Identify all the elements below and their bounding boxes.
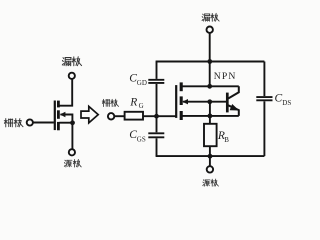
gate terminal circle (right) xyxy=(108,113,114,119)
wire: CDS to bottom rail xyxy=(263,101,265,156)
label CGD xyxy=(129,73,147,87)
wire: body to source junction xyxy=(61,115,73,123)
wire: source line xyxy=(182,115,239,117)
wire: source contact xyxy=(60,122,73,124)
channel segment (drain contact) xyxy=(180,82,183,91)
source terminal circle (left symbol) xyxy=(69,149,75,155)
wire: right branch upper (to CDS) xyxy=(263,62,265,97)
gate bar Q1 xyxy=(54,101,56,131)
junction dot (drain on top rail) xyxy=(207,59,212,64)
svg-text:R: R xyxy=(129,96,137,108)
emitter arrow xyxy=(230,104,240,111)
label 源极 (source terminal) xyxy=(203,179,219,186)
label 栅极 (gate, left symbol) xyxy=(4,119,23,127)
wire: RG to gate bar xyxy=(143,115,176,117)
wire: drain line xyxy=(182,85,239,87)
svg-text:G: G xyxy=(139,102,144,110)
wire: bottom rail (source net) xyxy=(156,155,265,157)
label RG xyxy=(129,96,143,110)
collector lead xyxy=(228,86,239,98)
svg-text:C: C xyxy=(275,93,283,105)
resistor RB xyxy=(204,124,217,146)
wire: CGD to gate node xyxy=(156,84,158,116)
junction dot (base node) xyxy=(207,99,212,104)
capacitor CDS xyxy=(256,97,272,100)
wire: drain drop from top rail xyxy=(209,62,211,87)
label 漏极 (drain, left symbol) xyxy=(62,57,81,66)
resistor RB vertical wire from base node xyxy=(209,102,211,124)
svg-text:GS: GS xyxy=(137,136,146,144)
label 源极 (source, left symbol) xyxy=(64,159,81,167)
emitter lead xyxy=(228,105,239,116)
label CDS xyxy=(275,93,292,107)
gate terminal circle (left symbol) xyxy=(27,119,33,125)
channel segment (source contact) xyxy=(57,122,60,130)
junction dot (body-source) xyxy=(70,120,75,125)
svg-text:B: B xyxy=(224,136,229,144)
wire: gate node to CGS xyxy=(156,116,158,132)
drain terminal circle (left symbol) xyxy=(69,73,75,79)
capacitor CGS xyxy=(148,133,164,137)
body arrow (N-channel) xyxy=(60,112,66,117)
wire: drain terminal lead xyxy=(209,33,211,61)
channel segment (body contact) xyxy=(180,96,183,105)
wire: body/base line xyxy=(183,101,226,103)
wire: source lead down xyxy=(71,123,73,149)
wire: left branch upper (to CGD) xyxy=(156,62,158,79)
wire: gate lead xyxy=(33,122,54,124)
wire: top rail (drain net) xyxy=(156,61,265,63)
channel segment (body contact) xyxy=(57,110,60,119)
channel segment (source contact) xyxy=(180,111,183,120)
body arrow (N-channel) xyxy=(182,99,188,104)
label 栅极 (gate, right) xyxy=(102,99,118,106)
junction dot (drain line) xyxy=(207,84,212,89)
label CGS xyxy=(129,129,146,143)
wire: drain lead to channel xyxy=(60,79,73,106)
channel segment (drain contact) xyxy=(57,101,60,108)
junction dot (source line) xyxy=(208,114,213,119)
source terminal circle (right) xyxy=(207,166,213,172)
junction dot (gate node on left branch) xyxy=(154,114,159,119)
junction dot (source on bottom rail) xyxy=(208,154,213,159)
drain terminal circle (right) xyxy=(207,27,213,33)
base bar xyxy=(226,93,229,113)
wire: gate to RG xyxy=(115,115,125,117)
svg-text:NPN: NPN xyxy=(214,71,237,82)
wire: source terminal lead xyxy=(209,146,211,166)
svg-text:DS: DS xyxy=(282,99,291,107)
svg-text:GD: GD xyxy=(137,79,147,87)
gate bar Q2 xyxy=(175,85,177,118)
label 漏极 (drain terminal) xyxy=(202,13,219,21)
capacitor CGD xyxy=(148,80,164,83)
label RB xyxy=(217,130,229,144)
wire: CGS to bottom rail xyxy=(156,138,158,156)
resistor RG xyxy=(125,112,143,120)
